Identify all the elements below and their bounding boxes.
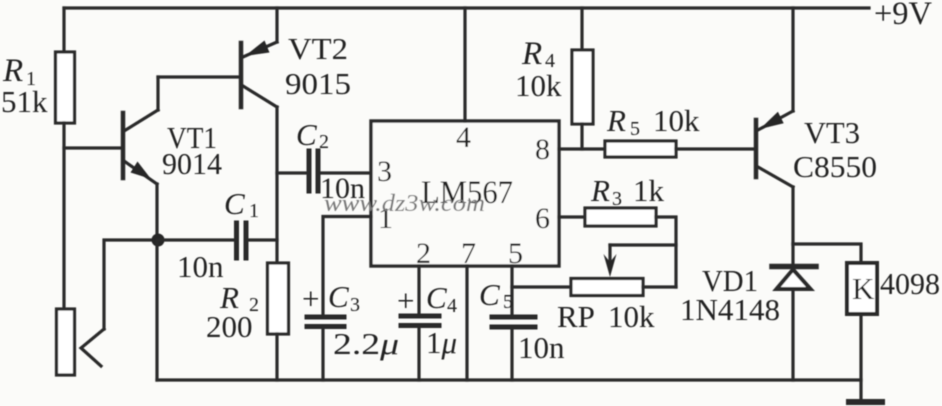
svg-text:51k: 51k bbox=[1, 84, 48, 119]
svg-text:C: C bbox=[479, 277, 500, 312]
svg-text:+: + bbox=[397, 283, 414, 318]
svg-text:5: 5 bbox=[508, 237, 523, 270]
svg-text:VT2: VT2 bbox=[288, 31, 348, 66]
pin 5 bbox=[508, 237, 523, 270]
svg-text:4: 4 bbox=[447, 295, 457, 317]
svg-text:4098: 4098 bbox=[880, 266, 940, 301]
wire: R5 to VT3 base bbox=[676, 147, 755, 150]
capacitor C5 bbox=[492, 317, 535, 380]
ground bbox=[849, 399, 882, 405]
wire: bottom ground rail bbox=[157, 378, 861, 381]
label VD1 1N4148 bbox=[680, 263, 780, 327]
potentiometer RP 10k bbox=[571, 245, 676, 296]
resistor R2 bbox=[268, 263, 289, 380]
wire: pin 8 to R5 bbox=[559, 147, 605, 150]
svg-text:6: 6 bbox=[535, 202, 550, 235]
svg-text:C: C bbox=[296, 117, 317, 152]
wire: VT3 collector node to relay bbox=[793, 244, 861, 263]
svg-text:10n: 10n bbox=[177, 249, 224, 284]
resistor R3 bbox=[585, 208, 656, 226]
label VT2 9015 bbox=[285, 31, 351, 101]
pin 2 bbox=[416, 237, 431, 270]
pin 1 bbox=[378, 202, 393, 235]
label R5 10k bbox=[606, 103, 700, 140]
wire: pin 4 to +9V rail bbox=[463, 8, 466, 121]
svg-text:1: 1 bbox=[249, 200, 259, 222]
label VT3 C8550 bbox=[793, 115, 877, 184]
watermark bbox=[324, 191, 485, 217]
svg-text:C8550: C8550 bbox=[793, 149, 877, 184]
wire: pin 1 to C3 bbox=[323, 217, 371, 315]
diode VD1 bbox=[772, 244, 816, 380]
wire: VT1 emitter node down to ground rail bbox=[155, 240, 158, 380]
wire: top +9V supply rail bbox=[64, 6, 869, 9]
wire: pin 2 to C4 bbox=[417, 266, 420, 314]
svg-text:5: 5 bbox=[630, 118, 640, 140]
wire: R1 to VT1 base bbox=[64, 146, 120, 149]
svg-text:+9V: +9V bbox=[874, 0, 932, 32]
label R4 10k bbox=[515, 36, 562, 103]
label R2 200 bbox=[206, 280, 259, 344]
svg-text:10k: 10k bbox=[608, 299, 655, 334]
capacitor C2 bbox=[277, 151, 371, 191]
label C4 + 1u bbox=[397, 280, 457, 360]
svg-text:C: C bbox=[328, 279, 349, 314]
microphone piezo element bbox=[57, 309, 105, 375]
capacitor C1 bbox=[157, 223, 277, 258]
node +9V label bbox=[874, 0, 932, 32]
label RP 10k bbox=[557, 299, 655, 334]
svg-text:10k: 10k bbox=[653, 103, 700, 138]
pin 8 bbox=[535, 133, 550, 166]
svg-text:www.dz3w.com: www.dz3w.com bbox=[324, 191, 485, 217]
svg-text:RP: RP bbox=[557, 299, 595, 334]
svg-text:VT3: VT3 bbox=[804, 115, 860, 150]
label C1 10n bbox=[177, 186, 259, 284]
wire: VT2 collector vertical to R2 bbox=[275, 107, 278, 262]
resistor R1 bbox=[56, 8, 75, 309]
op-amp U1 LM567 tone decoder box bbox=[371, 121, 559, 266]
transistor VT1 bbox=[123, 77, 241, 241]
svg-text:C: C bbox=[224, 186, 245, 221]
svg-text:9015: 9015 bbox=[285, 66, 351, 101]
svg-text:2.2μ: 2.2μ bbox=[333, 326, 399, 361]
svg-text:4: 4 bbox=[456, 121, 471, 154]
transistor VT3 bbox=[756, 8, 793, 244]
resistor R4 bbox=[572, 8, 593, 149]
svg-text:K: K bbox=[852, 271, 875, 306]
label R1 51k bbox=[1, 53, 48, 119]
svg-text:9014: 9014 bbox=[162, 146, 222, 181]
label C2 10n bbox=[296, 117, 365, 205]
svg-text:200: 200 bbox=[206, 309, 253, 344]
label C5 10n bbox=[479, 277, 565, 365]
pin 6 bbox=[535, 202, 550, 235]
label R3 1k bbox=[590, 173, 665, 210]
svg-text:R: R bbox=[590, 173, 610, 208]
svg-text:10n: 10n bbox=[518, 330, 565, 365]
relay K bbox=[847, 263, 877, 401]
resistor R5 bbox=[605, 141, 676, 157]
svg-text:8: 8 bbox=[535, 133, 550, 166]
label 4098 bbox=[880, 266, 940, 301]
wire: pin 5 branch to RP bbox=[512, 285, 571, 288]
pin 3 bbox=[377, 155, 392, 188]
svg-text:3: 3 bbox=[612, 188, 622, 210]
label C3 + 2.2u bbox=[302, 279, 399, 361]
svg-text:3: 3 bbox=[377, 155, 392, 188]
svg-text:10k: 10k bbox=[515, 68, 562, 103]
svg-text:1N4148: 1N4148 bbox=[680, 292, 780, 327]
svg-text:R: R bbox=[521, 36, 542, 72]
svg-text:C: C bbox=[426, 280, 447, 315]
wire: pin 7 to ground rail bbox=[465, 266, 468, 380]
svg-text:5: 5 bbox=[503, 291, 513, 313]
svg-text:R: R bbox=[606, 103, 626, 138]
svg-text:+: + bbox=[302, 281, 319, 316]
wire: R3 to RP right end bbox=[656, 217, 676, 287]
wire: pin 5 to C5 bbox=[510, 266, 513, 314]
label LM567 bbox=[421, 175, 513, 211]
svg-text:1k: 1k bbox=[633, 173, 665, 208]
svg-text:3: 3 bbox=[350, 294, 360, 316]
transistor VT2 bbox=[241, 8, 277, 107]
node: VT1 emitter junction dot bbox=[152, 234, 165, 247]
label VT1 9014 bbox=[162, 120, 222, 181]
label K bbox=[852, 271, 875, 306]
svg-text:1μ: 1μ bbox=[426, 325, 457, 360]
wire: pin 6 to R3 bbox=[559, 215, 585, 218]
capacitor C4 electrolytic bbox=[401, 316, 439, 380]
pin 4 bbox=[456, 121, 471, 154]
svg-text:2: 2 bbox=[319, 131, 329, 153]
capacitor C3 electrolytic bbox=[307, 317, 344, 380]
wire: VT1 emitter node to microphone bbox=[104, 240, 157, 329]
pin 7 bbox=[461, 237, 476, 270]
